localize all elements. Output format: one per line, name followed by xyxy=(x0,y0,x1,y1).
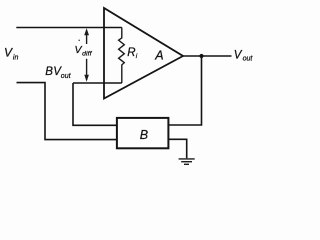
feedback block B xyxy=(117,118,168,148)
label Vin xyxy=(4,46,18,62)
svg-text:A: A xyxy=(154,49,163,63)
svg-text:B: B xyxy=(140,128,148,142)
svg-text:V: V xyxy=(234,50,243,62)
speck artifact xyxy=(78,40,80,42)
wire lower input to B xyxy=(73,83,117,125)
Vdiff up arrow xyxy=(84,28,89,44)
svg-text:out: out xyxy=(61,73,72,80)
wire Vin lead xyxy=(16,27,104,29)
wire output xyxy=(183,55,232,57)
svg-text:R: R xyxy=(127,47,135,59)
svg-text:in: in xyxy=(13,54,19,61)
wire lower input xyxy=(73,82,104,84)
wire Ri top xyxy=(104,27,122,29)
label Vout xyxy=(234,50,254,63)
svg-text:B: B xyxy=(45,66,53,78)
svg-text:diff: diff xyxy=(82,50,92,57)
Vdiff down arrow xyxy=(84,59,89,82)
wire BVout lead xyxy=(17,83,117,140)
node output junction xyxy=(199,54,203,58)
wire B to ground xyxy=(168,139,186,158)
op-amp A triangle xyxy=(104,8,183,99)
wire feedback from output to B xyxy=(168,56,201,125)
wire Ri bottom xyxy=(104,82,122,84)
ground xyxy=(179,159,195,164)
label BVout xyxy=(45,66,71,80)
label Ri xyxy=(127,47,138,60)
label Vdiff xyxy=(75,44,93,57)
svg-text:V: V xyxy=(4,46,13,60)
svg-text:out: out xyxy=(243,56,254,63)
resistor Ri xyxy=(119,28,125,84)
